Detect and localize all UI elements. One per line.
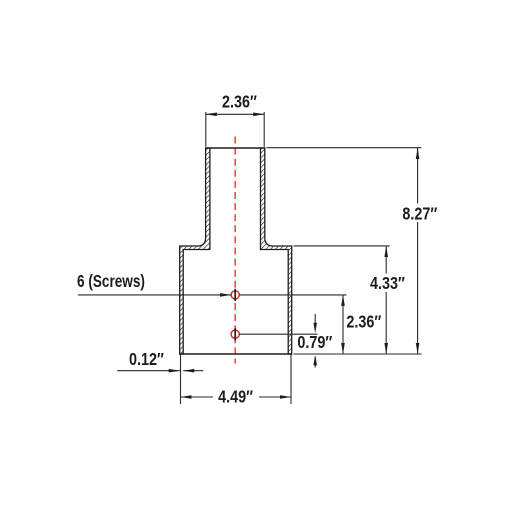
centerline (red dashed vertical axis) (234, 137, 236, 364)
body left wall + tube left wall (hatched section) (180, 148, 210, 354)
hole 1 right reference line (239, 294, 346, 296)
dimension 8.27 : bottom extension line (294, 353, 422, 355)
dimension 2.36 right : bottom arrow (341, 343, 345, 354)
dimension 4.33 : top arrow (384, 246, 388, 257)
dimension 8.27 : bottom arrow (416, 343, 420, 354)
screws leader arrow (220, 293, 231, 297)
screw hole 1 center tick (234, 289, 236, 301)
dimension 2.36 right : top arrow (341, 295, 345, 306)
screw hole 2 center tick (234, 328, 236, 340)
dimension 8.27 : dimension line upper segment (417, 148, 419, 204)
screw hole 2 (red circle) (231, 330, 239, 338)
dimension 4.33 : extension line (shoulder) (294, 245, 390, 247)
dimension 0.79 : bottom arrow (outside, pointing up) (314, 357, 316, 368)
dimension 2.36 right : dimension line (342, 295, 344, 354)
dimension 4.49 : dimension line left segment (181, 396, 214, 398)
dimension 4.49 : right arrow (280, 395, 291, 399)
dimension 4.33 : bottom arrow (384, 343, 388, 354)
tube top rim line (205, 147, 265, 149)
svg-text:2.36″: 2.36″ (346, 312, 381, 332)
dimension 2.36 top : dimension line (206, 113, 264, 115)
hole 2 right reference line (239, 333, 317, 335)
svg-text:4.49″: 4.49″ (218, 387, 253, 407)
screws leader line (78, 294, 232, 296)
svg-text:8.27″: 8.27″ (402, 204, 437, 224)
dimension 8.27 : top extension line (267, 147, 422, 149)
svg-text:4.33″: 4.33″ (370, 274, 405, 294)
dimension 4.33 : dimension line upper segment (385, 246, 387, 274)
dimension 2.36 top : right arrow (253, 113, 264, 117)
dimension 8.27 : top arrow (416, 148, 420, 159)
dimension 0.12 : left line with right-pointing arrow (117, 370, 180, 372)
svg-text:0.12″: 0.12″ (129, 350, 164, 370)
screw hole 1 (red circle) (231, 291, 239, 299)
dimension 0.79 : top arrow (outside, pointing down) (314, 314, 316, 330)
dimension 4.49 : left extension line (180, 355, 182, 405)
body bottom rim line (179, 353, 292, 355)
dimension 4.33 : dimension line lower segment (385, 292, 387, 354)
body right wall + tube right wall (hatched section) (261, 148, 292, 354)
dimension 4.49 : left arrow (181, 395, 192, 399)
dimension 0.12 : right line with left-pointing arrow (183, 370, 203, 372)
svg-text:0.79″: 0.79″ (297, 333, 332, 353)
dimension 2.36 top : extension lines (205, 112, 207, 147)
dimension 4.49 : dimension line right segment (259, 396, 291, 398)
dimension 4.49 : right extension line (290, 355, 292, 405)
dimension 8.27 : dimension line lower segment (417, 222, 419, 354)
svg-text:6 (Screws): 6 (Screws) (77, 272, 145, 291)
dimension 2.36 top : left arrow (206, 113, 217, 117)
svg-text:2.36″: 2.36″ (222, 92, 257, 112)
